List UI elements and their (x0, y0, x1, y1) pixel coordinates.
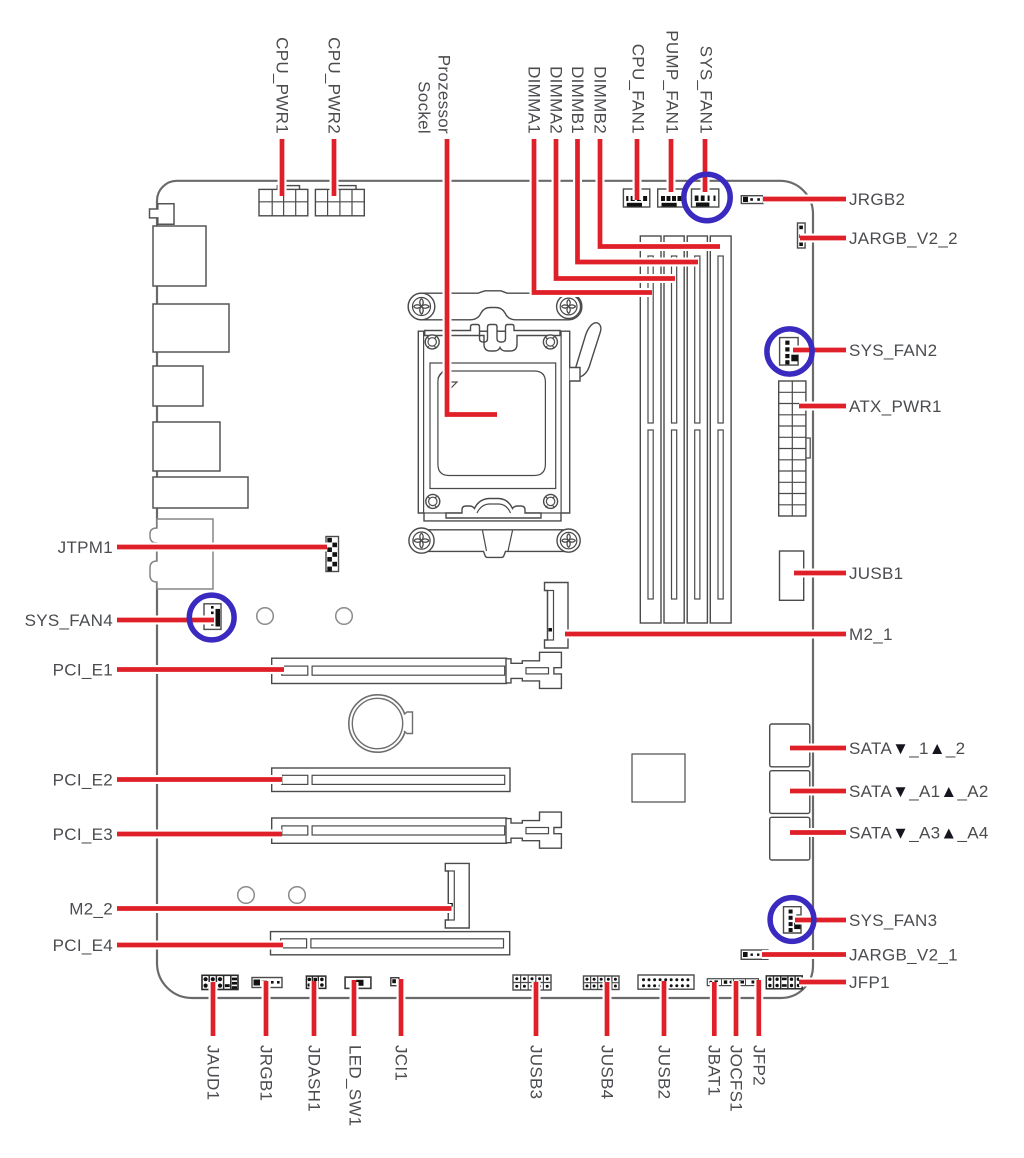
fan header CPU_FAN1 (623, 189, 649, 207)
svg-text:ATX_PWR1: ATX_PWR1 (849, 397, 942, 416)
svg-text:PCI_E2: PCI_E2 (53, 771, 113, 790)
screw bottom-left (409, 528, 434, 553)
io block usb1 (153, 304, 229, 352)
wire CPU_FAN1 (633, 139, 642, 200)
socket inner frame (424, 331, 561, 513)
svg-text:PCI_E3: PCI_E3 (53, 825, 113, 844)
header JFP2 (739, 979, 757, 985)
svg-text:CPU_FAN1: CPU_FAN1 (629, 44, 648, 134)
wire LED_SW1 (350, 982, 359, 1036)
chipset (632, 754, 685, 802)
wire CPU_PWR1 (278, 139, 287, 196)
header JRGB1 (252, 978, 282, 988)
svg-text:CPU_PWR1: CPU_PWR1 (273, 37, 292, 134)
header JRGB2 (741, 196, 763, 204)
svg-text:SATA▼_1▲_2: SATA▼_1▲_2 (849, 739, 965, 758)
wire SATA_A1_A2 (790, 787, 846, 796)
mounting hole (257, 608, 274, 625)
header JCI1 (391, 978, 399, 986)
bottom spring (446, 499, 541, 519)
header JTPM1 (326, 537, 339, 572)
wire PUMP_FAN1 (667, 139, 676, 192)
DIMM slot DIMMB2 (710, 236, 731, 623)
socket well (430, 363, 556, 489)
svg-text:SYS_FAN4: SYS_FAN4 (25, 611, 113, 630)
highlight circle SYS_FAN3 (770, 898, 814, 942)
wire JUSB4 (603, 982, 612, 1036)
io block lan1 (153, 226, 206, 286)
board outline (157, 181, 813, 998)
svg-text:SATA▼_A3▲_A4: SATA▼_A3▲_A4 (849, 824, 989, 843)
svg-text:PUMP_FAN1: PUMP_FAN1 (663, 30, 682, 134)
svg-text:JUSB4: JUSB4 (598, 1045, 617, 1099)
highlight circle SYS_FAN1 (684, 174, 730, 220)
PCI_E4 slot (271, 932, 510, 955)
header JBAT1 (707, 979, 758, 986)
wire Prozessor Sockel (447, 139, 497, 415)
mounting hole (336, 608, 353, 625)
svg-text:LED_SW1: LED_SW1 (346, 1045, 365, 1126)
wire SYS_FAN2 (793, 346, 846, 355)
header JAUD1 (202, 975, 238, 989)
PCI_E1 slot (272, 652, 562, 688)
svg-text:SYS_FAN3: SYS_FAN3 (849, 911, 937, 930)
DIMM slot DIMMA1 (640, 236, 661, 623)
wire CPU_PWR2 (330, 139, 339, 196)
wire JBAT1 (710, 982, 719, 1036)
screw frame bottom-right (544, 494, 558, 508)
wire M2_1 (565, 630, 846, 639)
wire PCI_E2 (117, 775, 282, 784)
wire M2_2 (117, 904, 452, 913)
svg-text:SYS_FAN1: SYS_FAN1 (697, 46, 716, 134)
wire SYS_FAN3 (795, 916, 846, 925)
svg-text:M2_1: M2_1 (849, 625, 893, 644)
svg-text:JBAT1: JBAT1 (705, 1045, 724, 1096)
header JDASH1 (306, 976, 325, 988)
highlight circle SYS_FAN4 (189, 595, 234, 640)
svg-text:JFP2: JFP2 (749, 1045, 768, 1086)
wire JCI1 (397, 979, 406, 1036)
svg-text:JOCFS1: JOCFS1 (727, 1045, 746, 1112)
svg-text:JARGB_V2_2: JARGB_V2_2 (849, 229, 958, 248)
header JARGB_V2_1 (741, 950, 768, 959)
screw frame top-right (543, 335, 557, 349)
header JARGB_V2_2 (798, 223, 806, 248)
cpu substrate (438, 371, 546, 476)
screw top-left (408, 293, 435, 320)
svg-text:Sockel: Sockel (415, 81, 434, 134)
wire JRGB1 (262, 981, 271, 1036)
connector CPU_PWR1 (259, 186, 308, 216)
SATA A1 A2 (770, 771, 810, 814)
wire SYS_FAN4 (117, 616, 214, 625)
svg-text:JRGB1: JRGB1 (257, 1045, 276, 1101)
svg-text:JTPM1: JTPM1 (58, 538, 113, 557)
io connector small top-left (150, 204, 175, 225)
io block usb3 (153, 422, 220, 471)
connector ATX_PWR1 (779, 381, 811, 516)
wire JUSB2 (660, 981, 669, 1036)
wire JRGB2 (763, 195, 846, 204)
wire DIMMA2 (556, 139, 675, 279)
wire DIMMB2 (600, 139, 720, 247)
screw top-right (557, 295, 581, 319)
CPU socket assembly (Prozessor Sockel) (408, 291, 601, 558)
bottom retention bar (411, 530, 580, 558)
svg-text:M2_2: M2_2 (69, 900, 113, 919)
retention spring plate (425, 325, 560, 352)
DIMM slot DIMMB1 (687, 236, 707, 623)
M2_1 slot (545, 583, 569, 649)
svg-text:PCI_E4: PCI_E4 (53, 936, 113, 955)
wire PCI_E1 (117, 665, 284, 674)
wire JFP1 (799, 978, 846, 987)
wire JDASH1 (310, 981, 319, 1036)
M2_2 slot (445, 863, 469, 928)
svg-text:DIMMB2: DIMMB2 (591, 66, 610, 134)
svg-text:JARGB_V2_1: JARGB_V2_1 (849, 946, 958, 965)
wire DIMMA1 (534, 139, 652, 293)
fan header SYS_FAN3 (784, 907, 802, 933)
wire JAUD1 (209, 982, 218, 1036)
DIMM slot DIMMA2 (664, 236, 684, 623)
svg-text:DIMMA1: DIMMA1 (525, 66, 544, 134)
wire JARGB_V2_2 (800, 234, 846, 243)
SATA A3 A4 (770, 817, 810, 860)
svg-text:CPU_PWR2: CPU_PWR2 (325, 37, 344, 134)
fan header SYS_FAN1 (692, 189, 719, 207)
io block usb4 (153, 477, 248, 508)
fan header SYS_FAN4 (204, 604, 221, 630)
header JUSB3 (513, 975, 551, 990)
top retention bar (408, 291, 582, 320)
svg-text:JDASH1: JDASH1 (305, 1045, 324, 1112)
mounting hole (238, 887, 255, 904)
wire JARGB_V2_1 (762, 950, 846, 959)
wire SATA_1_2 (790, 744, 846, 753)
header JOCFS1 (722, 979, 734, 985)
connector CPU_PWR2 (315, 186, 364, 216)
svg-text:DIMMA2: DIMMA2 (547, 66, 566, 134)
wire SATA_A3_A4 (790, 828, 846, 837)
io block usb2 (153, 366, 203, 406)
wire ATX_PWR1 (799, 402, 846, 411)
fan header SYS_FAN2 (780, 338, 799, 366)
wire DIMMB1 (578, 139, 699, 262)
header JUSB4 (584, 976, 620, 990)
switch LED_SW1 (345, 977, 371, 988)
io block audio (150, 519, 213, 589)
wire JUSB1 (794, 569, 846, 578)
PCI_E3 slot (272, 812, 562, 848)
header JFP1 (766, 976, 802, 989)
header JUSB2 (638, 975, 694, 989)
screw frame bottom-left (426, 494, 440, 508)
svg-text:JFP1: JFP1 (849, 973, 890, 992)
wire SYS_FAN1 (701, 139, 710, 192)
cpu corner mark (438, 371, 457, 390)
svg-text:Prozessor: Prozessor (435, 55, 454, 134)
wire JTPM1 (117, 543, 327, 552)
svg-text:DIMMB1: DIMMB1 (568, 66, 587, 134)
screw bottom-right (557, 529, 580, 552)
mounting hole (289, 887, 306, 904)
connector JUSB1 (780, 551, 804, 600)
svg-text:JUSB3: JUSB3 (527, 1045, 546, 1099)
svg-text:SYS_FAN2: SYS_FAN2 (849, 341, 937, 360)
svg-text:SATA▼_A1▲_A2: SATA▼_A1▲_A2 (849, 782, 989, 801)
wire JOCFS1 (732, 981, 741, 1036)
socket lever (575, 323, 601, 379)
battery (349, 695, 413, 752)
fan header PUMP_FAN1 (658, 189, 685, 207)
SATA 1 2 (770, 724, 810, 767)
highlight circle SYS_FAN2 (767, 329, 812, 374)
svg-text:JAUD1: JAUD1 (204, 1045, 223, 1100)
svg-text:JUSB2: JUSB2 (655, 1045, 674, 1099)
svg-text:JUSB1: JUSB1 (849, 564, 903, 583)
wire PCI_E4 (117, 941, 283, 950)
PCI_E2 slot (272, 768, 510, 792)
svg-text:PCI_E1: PCI_E1 (53, 661, 113, 680)
wire JUSB3 (532, 982, 541, 1036)
screw frame top-left (425, 335, 439, 349)
wire JFP2 (754, 980, 763, 1036)
socket outer frame (418, 331, 569, 521)
wire PCI_E3 (117, 830, 282, 839)
lever latch block (570, 368, 580, 382)
svg-text:JCI1: JCI1 (392, 1045, 411, 1081)
svg-text:JRGB2: JRGB2 (849, 190, 905, 209)
